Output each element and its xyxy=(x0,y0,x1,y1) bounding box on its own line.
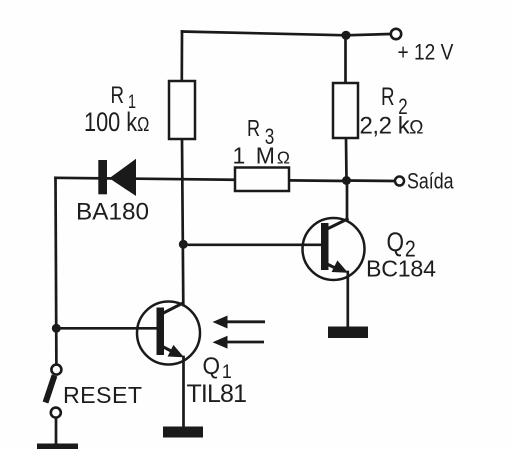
wire Q1 base xyxy=(56,327,158,330)
transistor Q2 collector stroke xyxy=(325,219,349,231)
resistor R2 xyxy=(333,83,358,138)
switch RESET upper contact xyxy=(51,365,61,375)
diode D1 BA180 cathode bar xyxy=(98,160,107,194)
transistor Q2 emitter stroke xyxy=(325,263,340,270)
wire top rail xyxy=(182,32,346,36)
svg-text:2,2 kΩ: 2,2 kΩ xyxy=(360,113,424,140)
svg-text:Saída: Saída xyxy=(407,170,454,194)
terminal +12V xyxy=(391,29,401,39)
light arrow upper head xyxy=(213,316,228,329)
svg-text:RESET: RESET xyxy=(63,382,142,408)
wire Q2 base xyxy=(183,243,323,246)
transistor Q2 emitter arrowhead xyxy=(332,260,348,272)
switch RESET lower contact xyxy=(51,408,61,418)
resistor R1 xyxy=(169,81,195,139)
svg-text:BA180: BA180 xyxy=(76,199,149,226)
wire feedback horizontal (diode / R3 line) xyxy=(56,178,347,181)
svg-text:TIL81: TIL81 xyxy=(187,380,248,408)
light arrow lower shaft xyxy=(227,341,264,344)
node junction left wire / Q1 base xyxy=(52,324,61,333)
light arrow upper shaft xyxy=(227,320,265,323)
transistor Q1 emitter arrowhead xyxy=(168,345,184,357)
svg-text:+ 12 V: + 12 V xyxy=(398,40,454,65)
wire Q2 emitter to ground xyxy=(346,272,349,327)
wire reset switch to ground xyxy=(55,418,58,444)
terminal Saida xyxy=(395,177,404,186)
transistor Q1 collector stroke xyxy=(161,303,185,315)
svg-text:BC184: BC184 xyxy=(366,256,436,282)
wire R1 bottom to Q1 collector xyxy=(182,139,183,305)
transistor Q2 body circle xyxy=(303,218,365,280)
diode D1 BA180 anode triangle xyxy=(109,159,136,196)
resistor R3 xyxy=(235,168,289,192)
light arrow lower head xyxy=(213,336,228,349)
wire R2 top xyxy=(344,35,347,83)
node junction R2 / R3 / Saida xyxy=(342,176,351,185)
wire R1 top xyxy=(180,32,183,82)
wire R2 bottom xyxy=(345,138,348,181)
switch RESET lever xyxy=(46,376,55,403)
transistor Q1 emitter stroke xyxy=(161,346,177,354)
wire Q1 emitter to ground xyxy=(182,357,185,427)
svg-text:100 kΩ: 100 kΩ xyxy=(84,108,149,138)
wire to +12V terminal xyxy=(346,34,391,35)
wire Q2 collector xyxy=(346,181,349,221)
transistor Q1 base bar xyxy=(157,308,165,356)
transistor Q2 base bar xyxy=(321,223,329,270)
node junction R1 / Q1 collector / Q2 base xyxy=(179,240,188,249)
ground reset switch xyxy=(37,444,78,449)
ground Q1 emitter xyxy=(163,427,203,438)
wire output to Saida terminal xyxy=(347,179,396,182)
wire left vertical (diode to reset switch) xyxy=(54,178,58,364)
transistor Q1 body circle xyxy=(137,302,200,365)
ground Q2 emitter xyxy=(328,327,368,339)
node junction +12V rail / R2 xyxy=(341,31,350,40)
